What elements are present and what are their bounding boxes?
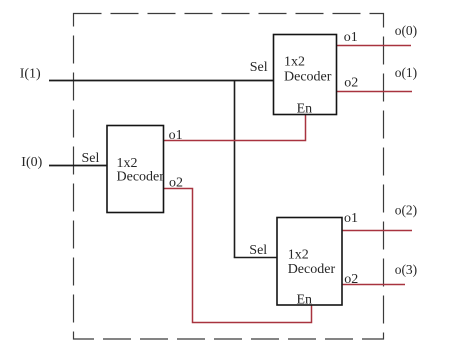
svg-text:o2: o2 <box>169 176 183 191</box>
svg-text:o1: o1 <box>344 211 358 226</box>
svg-text:Sel: Sel <box>82 151 100 166</box>
svg-text:o(1): o(1) <box>395 65 418 80</box>
wire red: left decoder o1 to top decoder En <box>164 115 306 141</box>
svg-text:Decoder: Decoder <box>288 262 336 277</box>
svg-text:o(3): o(3) <box>395 262 418 277</box>
wire red: bottom decoder o2 output o(3) <box>342 284 405 286</box>
svg-text:En: En <box>297 293 313 308</box>
decoder U2 (left) 1x2 Decoder <box>107 126 164 213</box>
svg-text:I(1): I(1) <box>20 66 41 81</box>
svg-text:o2: o2 <box>344 272 358 287</box>
wire red: top decoder o1 output o(0) <box>337 45 412 47</box>
wire I(1) horizontal into top decoder Sel <box>49 80 274 82</box>
svg-text:Decoder: Decoder <box>284 70 332 85</box>
decoder U1 (top) 1x2 Decoder <box>274 35 337 115</box>
svg-text:o1: o1 <box>344 30 358 45</box>
svg-text:1x2: 1x2 <box>284 55 305 70</box>
wire red: top decoder o2 output o(1) <box>337 91 413 93</box>
wire red: bottom decoder o1 output o(2) <box>342 230 412 232</box>
wire branch to bottom decoder Sel <box>234 257 278 259</box>
wire I(1) branch vertical down <box>234 81 236 258</box>
svg-text:o(2): o(2) <box>395 202 418 217</box>
svg-text:En: En <box>297 102 313 117</box>
svg-text:Sel: Sel <box>249 243 267 258</box>
svg-text:o1: o1 <box>169 128 183 143</box>
wire red: left decoder o2 to bottom decoder En <box>164 189 312 323</box>
svg-text:1x2: 1x2 <box>288 247 309 262</box>
svg-text:o2: o2 <box>344 75 358 90</box>
dashed enclosure border <box>74 14 384 340</box>
svg-text:Sel: Sel <box>250 60 268 75</box>
wire I(0) into left decoder Sel <box>49 165 108 167</box>
svg-text:o(0): o(0) <box>395 23 418 38</box>
decoder U3 (bottom) 1x2 Decoder <box>277 218 342 306</box>
svg-text:I(0): I(0) <box>21 155 42 170</box>
svg-text:Decoder: Decoder <box>117 170 165 185</box>
